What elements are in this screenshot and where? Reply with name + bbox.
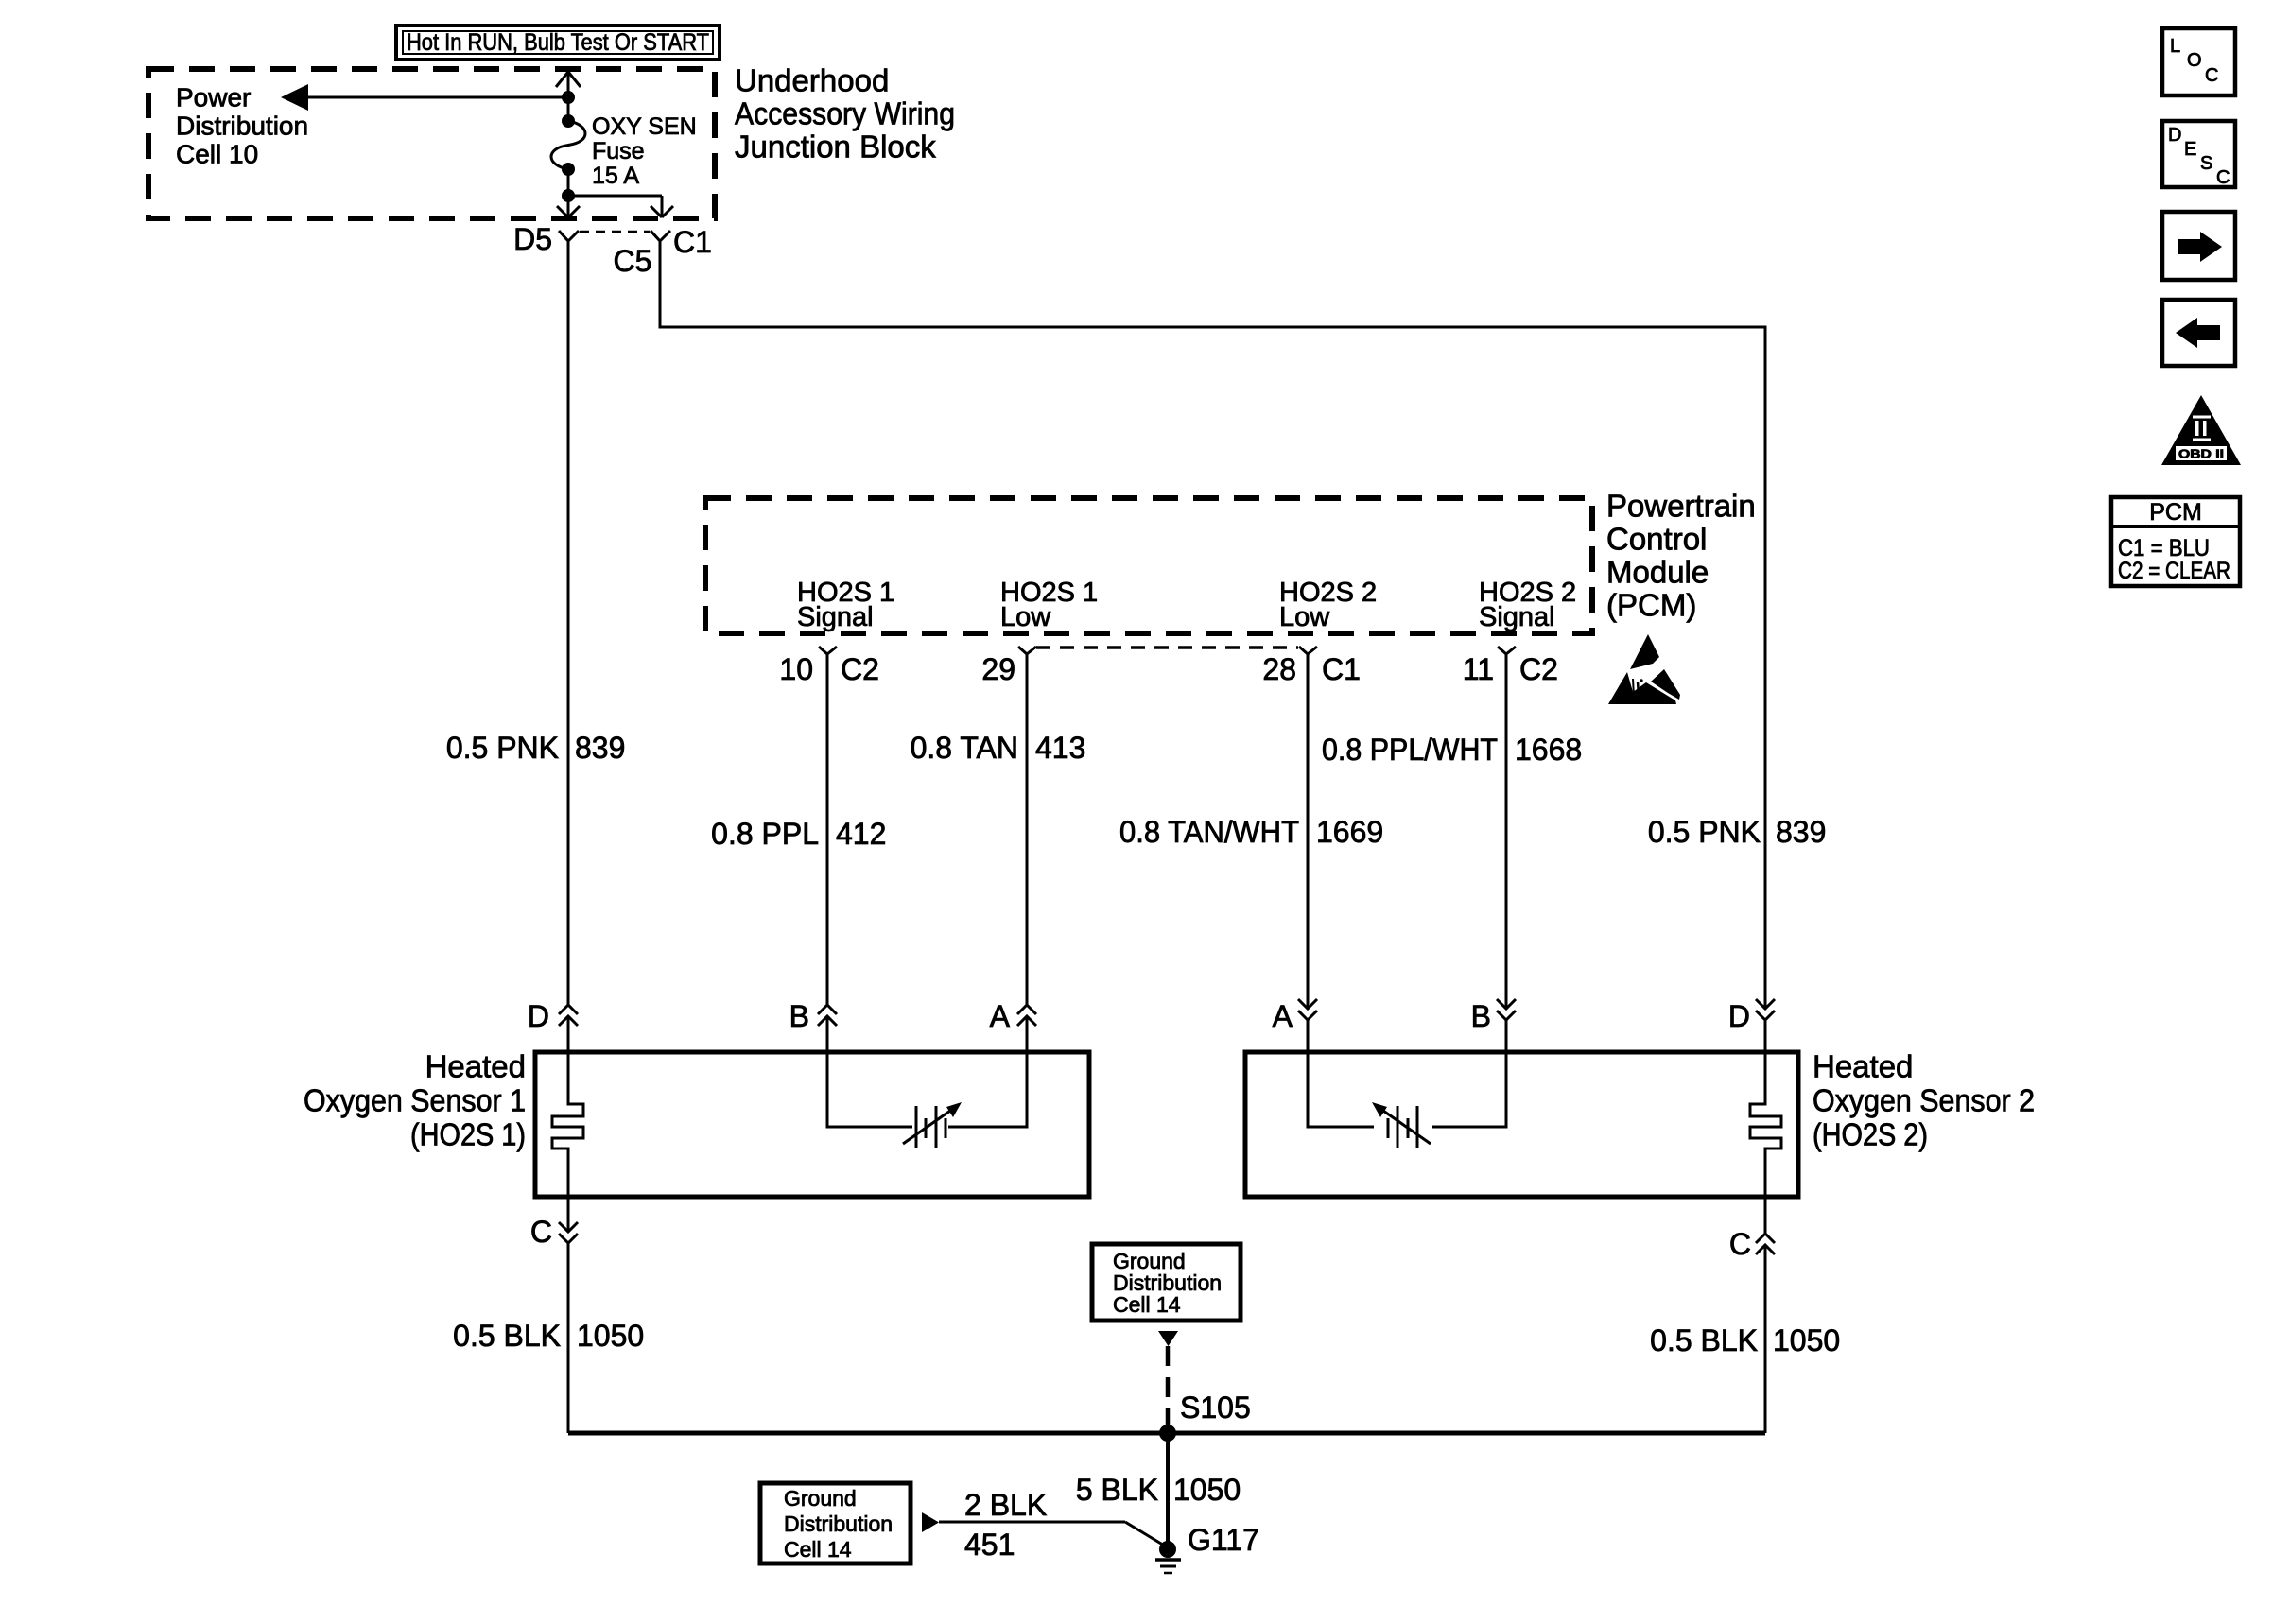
wire: HO2S1 C to ground bus [567, 1243, 570, 1433]
PCM pin 10 C2 (Y connector) [779, 647, 879, 686]
svg-text:Ground: Ground [784, 1486, 857, 1511]
svg-text:Control: Control [1606, 522, 1707, 557]
wire: HO2S2 C to ground bus [1764, 1245, 1767, 1433]
label: 0.5 PNK 839 (right) [1648, 815, 1827, 849]
PCM pin function labels [797, 578, 1576, 632]
connector pin D of HO2S1 (up chevrons) [528, 999, 578, 1033]
svg-text:1669: 1669 [1316, 815, 1383, 849]
dashed connector link between pins 29 and 28 [1036, 646, 1298, 649]
svg-text:413: 413 [1035, 731, 1085, 765]
sidebar: PCM connector legend box [2111, 497, 2240, 586]
svg-text:(PCM): (PCM) [1606, 588, 1696, 623]
PCM dashed box [705, 498, 1592, 633]
connector pin B of HO2S2 (down chevrons) [1471, 999, 1516, 1033]
connector C1 (Y symbol) [651, 225, 712, 259]
wire: feed to Power Distribution with left arrow [281, 84, 568, 111]
svg-text:Heated: Heated [425, 1049, 526, 1084]
svg-text:1668: 1668 [1515, 733, 1582, 767]
node: junction dot at power branch [562, 91, 575, 104]
label: 5 BLK 1050 [1076, 1473, 1241, 1507]
sidebar: OBD II warning triangle [2161, 395, 2241, 465]
svg-text:D: D [1728, 999, 1750, 1033]
svg-text:412: 412 [836, 817, 886, 851]
wire: pin 28 to HO2S2 pin A [1307, 654, 1310, 1008]
svg-text:5 BLK: 5 BLK [1076, 1473, 1158, 1507]
wire: D5 down to HO2S1 pin D [567, 241, 570, 1005]
svg-text:O: O [2187, 50, 2202, 71]
wire: branch to C1 with down arrow [568, 196, 673, 217]
svg-text:C2 = CLEAR: C2 = CLEAR [2118, 558, 2230, 584]
svg-text:29: 29 [981, 652, 1015, 686]
svg-text:C1: C1 [673, 225, 712, 259]
svg-text:C: C [2205, 65, 2218, 86]
PCM pin 28 C1 (Y connector) [1262, 647, 1361, 686]
sidebar: LOC box [2162, 28, 2235, 95]
connector pin D of HO2S2 (down chevrons) [1728, 999, 1775, 1033]
node: splice S105 [1159, 1391, 1251, 1442]
connector pin C of HO2S2 (up chevrons) [1729, 1227, 1775, 1261]
svg-text:0.5 BLK: 0.5 BLK [1650, 1323, 1758, 1357]
svg-text:28: 28 [1262, 652, 1296, 686]
wire: 2 BLK 451 reference wire with triangle [922, 1488, 1166, 1562]
svg-text:D: D [2168, 125, 2181, 146]
svg-text:Module: Module [1606, 555, 1709, 590]
svg-text:Cell 14: Cell 14 [784, 1537, 852, 1562]
svg-text:0.8 TAN/WHT: 0.8 TAN/WHT [1119, 815, 1299, 849]
svg-text:C5: C5 [614, 244, 652, 278]
wire: pin 11 to HO2S2 pin B [1505, 654, 1508, 1008]
svg-text:D: D [528, 999, 549, 1033]
PCM pin 29 (Y connector) [981, 647, 1036, 686]
svg-text:S: S [2200, 153, 2212, 174]
svg-text:Low: Low [1000, 602, 1051, 632]
svg-text:Signal: Signal [1479, 602, 1555, 632]
label: Heated Oxygen Sensor 1 (HO2S 1) [304, 1049, 526, 1152]
svg-text:B: B [789, 999, 809, 1033]
label: OXY SEN Fuse 15 A [592, 113, 697, 189]
svg-text:Underhood: Underhood [735, 63, 889, 98]
svg-text:Distribution: Distribution [176, 112, 308, 141]
svg-text:839: 839 [575, 731, 625, 765]
svg-text:Fuse: Fuse [592, 138, 645, 164]
svg-text:1050: 1050 [1173, 1473, 1241, 1507]
ground distribution reference box (lower left) [760, 1483, 911, 1564]
svg-text:0.5 PNK: 0.5 PNK [1648, 815, 1761, 849]
wire: S105 to G117 ground [1166, 1433, 1170, 1549]
wire: pin 10 to HO2S1 pin B [826, 654, 829, 1005]
svg-text:D5: D5 [513, 222, 552, 256]
ground G117 [1155, 1523, 1259, 1573]
connector pin B of HO2S1 (up chevrons) [789, 999, 837, 1033]
svg-text:L: L [2170, 36, 2180, 57]
svg-text:0.5 PNK: 0.5 PNK [446, 731, 559, 765]
svg-text:OXY SEN: OXY SEN [592, 113, 697, 140]
svg-text:(HO2S 1): (HO2S 1) [410, 1117, 526, 1152]
svg-text:0.5 BLK: 0.5 BLK [453, 1319, 561, 1353]
label: 0.8 PPL 412 [711, 817, 886, 851]
svg-text:1050: 1050 [1773, 1323, 1840, 1357]
wire: fuse output down to D5 with down arrow [557, 169, 580, 217]
power source box "Hot In RUN, Bulb Test Or START" [396, 26, 720, 60]
svg-text:0.8 TAN: 0.8 TAN [911, 731, 1018, 765]
svg-text:C: C [2216, 167, 2230, 188]
svg-text:Hot In RUN, Bulb Test Or START: Hot In RUN, Bulb Test Or START [407, 29, 709, 56]
label: Heated Oxygen Sensor 2 (HO2S 2) [1813, 1049, 2035, 1152]
sensing element (variable) HO2S1 [827, 1016, 1027, 1148]
svg-text:S105: S105 [1180, 1391, 1251, 1425]
sidebar: forward arrow box [2162, 212, 2235, 280]
wire: vertical feed with up arrow to power box [556, 72, 581, 121]
svg-text:C: C [1729, 1227, 1751, 1261]
label: 0.8 TAN 413 [911, 731, 1086, 765]
svg-text:Accessory Wiring: Accessory Wiring [735, 96, 955, 131]
svg-text:Oxygen Sensor 2: Oxygen Sensor 2 [1813, 1083, 2035, 1118]
svg-text:15 A: 15 A [592, 163, 639, 189]
label: 0.8 PPL/WHT 1668 [1322, 733, 1582, 767]
svg-text:Distribution: Distribution [784, 1512, 893, 1536]
heater element HO2S1 [552, 1016, 583, 1230]
junction block dashed box (Underhood Accessory Wiring Junction Block) [148, 69, 715, 218]
svg-text:PCM: PCM [2149, 499, 2202, 526]
svg-text:0.8 PPL: 0.8 PPL [711, 817, 819, 851]
svg-text:10: 10 [779, 652, 813, 686]
svg-text:OBD II: OBD II [2178, 447, 2224, 461]
PCM pin 11 C2 (Y connector) [1463, 647, 1558, 686]
svg-text:Heated: Heated [1813, 1049, 1913, 1084]
svg-text:11: 11 [1463, 652, 1494, 686]
connector pin A of HO2S1 (up chevrons) [990, 999, 1036, 1033]
sensing element (variable) HO2S2 [1308, 1020, 1506, 1148]
connector pin C of HO2S1 (down chevrons) [530, 1215, 578, 1249]
svg-text:0.8 PPL/WHT: 0.8 PPL/WHT [1322, 733, 1498, 767]
label: Power Distribution Cell 10 [176, 83, 308, 169]
connector pin A of HO2S2 (down chevrons) [1273, 999, 1317, 1033]
sidebar: DESC box [2162, 121, 2235, 188]
svg-text:Power: Power [176, 83, 251, 112]
svg-text:451: 451 [964, 1528, 1015, 1562]
ground distribution reference box (upper) [1092, 1244, 1241, 1321]
HO2S2 box [1245, 1052, 1798, 1197]
svg-text:1050: 1050 [577, 1319, 644, 1353]
svg-text:C2: C2 [841, 652, 879, 686]
svg-text:E: E [2184, 139, 2196, 160]
wire: dashed reference to S105 with down triangle [1158, 1331, 1178, 1429]
label: 0.5 PNK 839 (left) [446, 731, 626, 765]
svg-text:Powertrain: Powertrain [1606, 489, 1756, 524]
heater element HO2S2 [1750, 1020, 1781, 1234]
svg-text:2 BLK: 2 BLK [964, 1488, 1047, 1522]
svg-text:A: A [1273, 999, 1293, 1033]
svg-text:Junction Block: Junction Block [735, 130, 936, 164]
svg-text:Cell 10: Cell 10 [176, 140, 258, 169]
fuse OXY SEN 15 A [551, 114, 585, 176]
label: 0.5 BLK 1050 (right) [1650, 1323, 1840, 1357]
ESD sensitive device symbol [1608, 634, 1680, 704]
svg-text:C: C [530, 1215, 552, 1249]
wire: ground bus [568, 1431, 1765, 1436]
svg-text:Signal: Signal [797, 602, 874, 632]
svg-text:(HO2S 2): (HO2S 2) [1813, 1117, 1928, 1152]
svg-text:839: 839 [1776, 815, 1826, 849]
svg-text:G117: G117 [1188, 1523, 1259, 1557]
svg-text:C2: C2 [1519, 652, 1558, 686]
label: 0.5 BLK 1050 (left) [453, 1319, 644, 1353]
svg-text:B: B [1471, 999, 1491, 1033]
wire: C1 across top and down to HO2S2 pin D [660, 241, 1765, 1008]
HO2S1 box [535, 1052, 1089, 1197]
svg-text:Oxygen Sensor 1: Oxygen Sensor 1 [304, 1083, 526, 1118]
label: Underhood Accessory Wiring Junction Block [735, 63, 955, 164]
label: 0.8 TAN/WHT 1669 [1119, 815, 1383, 849]
node: junction dot below fuse [562, 189, 575, 202]
svg-text:A: A [990, 999, 1011, 1033]
label: Powertrain Control Module (PCM) [1606, 489, 1756, 623]
svg-text:Cell 14: Cell 14 [1113, 1292, 1181, 1317]
connector C5 dashed link [580, 232, 651, 278]
wire: pin 29 to HO2S1 pin A [1026, 654, 1029, 1005]
connector D5 (Y symbol) [513, 222, 579, 256]
sidebar: back arrow box [2162, 300, 2235, 366]
svg-text:Low: Low [1279, 602, 1330, 632]
svg-text:C1: C1 [1322, 652, 1361, 686]
